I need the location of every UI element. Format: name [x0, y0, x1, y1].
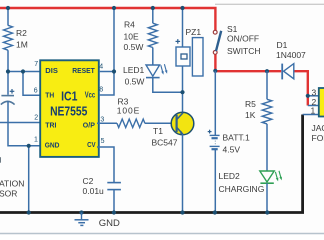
- diode D1: [282, 64, 294, 80]
- svg-text:0.5W: 0.5W: [125, 77, 145, 87]
- wire: R4 to LED1 anode: [152, 48, 154, 65]
- wire: IC pin 5 CV to C2: [97, 147, 114, 182]
- svg-text:GND: GND: [99, 218, 120, 229]
- svg-text:R5: R5: [245, 99, 256, 109]
- LED LED1: [146, 64, 167, 77]
- wire: IC pin 2 TRI line from left edge: [0, 122, 40, 124]
- svg-text:8: 8: [99, 87, 103, 94]
- resistor R3: [117, 119, 145, 127]
- wire: R2 to vibration sensor: [7, 50, 9, 95]
- svg-text:R2: R2: [16, 28, 27, 38]
- wire: PZ1 bottom to collector node: [182, 66, 184, 92]
- resistor R5: [262, 99, 272, 124]
- svg-text:GND: GND: [45, 141, 60, 150]
- svg-text:10E: 10E: [124, 31, 139, 41]
- svg-text:3: 3: [100, 116, 104, 123]
- junction: ground symbol on bus: [79, 210, 83, 214]
- junction: R4 top on rail: [151, 6, 155, 10]
- junction: IC pin 1 GND node: [27, 144, 31, 148]
- svg-text:TH: TH: [45, 90, 54, 99]
- svg-text:1K: 1K: [245, 110, 256, 120]
- wire: IC pin 3 O/P to R3: [97, 122, 117, 124]
- connector J1: charger jack (cut off at right edge): [319, 88, 324, 117]
- wire: jack pin 1 stub: [303, 114, 319, 116]
- capacitor C2: [107, 183, 121, 190]
- svg-text:D1: D1: [277, 40, 288, 50]
- junction: GND column on bus: [27, 210, 31, 214]
- junction: PZ1 column on rail: [180, 6, 184, 10]
- wire: C2 to ground bus: [113, 190, 115, 213]
- wire: GND node down to ground bus: [28, 146, 30, 213]
- wire: battery node down to BATT.1: [214, 71, 216, 135]
- junction: T1 emitter on bus: [180, 210, 184, 214]
- svg-text:PZ1: PZ1: [186, 27, 202, 37]
- junction: R5 top node on red wire: [265, 69, 269, 73]
- svg-text:NE7555: NE7555: [50, 104, 87, 119]
- junction: IC V+ column on rail: [112, 6, 116, 10]
- wire: node to R5: [266, 71, 268, 99]
- wire: LED1 cathode to collector node: [153, 78, 183, 93]
- svg-text:O/P: O/P: [83, 120, 95, 129]
- wire: battery negative to ground bus: [214, 149, 216, 212]
- svg-text:C2: C2: [83, 176, 94, 186]
- junction: R2 top on rail: [6, 6, 10, 10]
- wire: D1 cathode side to jack pins 3/2: [294, 71, 308, 105]
- svg-text:1N4007: 1N4007: [276, 50, 306, 60]
- svg-text:1: 1: [34, 136, 38, 143]
- op-amp/timer IC U1: IC1 NE7555 body: [40, 60, 99, 157]
- junction: node A TH branch: [21, 69, 25, 73]
- svg-text:R4: R4: [124, 20, 135, 30]
- ground symbol: [75, 213, 89, 226]
- svg-text:IC1: IC1: [61, 88, 77, 103]
- junction: jack pin 3 node on red wire: [306, 94, 310, 98]
- svg-text:6: 6: [34, 88, 38, 95]
- svg-text:ON/OFF: ON/OFF: [227, 34, 259, 44]
- junction: LED2 cathode on bus: [265, 210, 269, 214]
- svg-text:4: 4: [99, 64, 103, 71]
- junction: node A at R2 bottom: [6, 69, 10, 73]
- svg-text:Vcc: Vcc: [85, 91, 96, 100]
- junction: T1 collector node: [180, 90, 184, 94]
- svg-text:3: 3: [312, 88, 317, 98]
- wire: top V+ rail to S1: [0, 8, 215, 30]
- junction: battery positive node on red wire: [213, 69, 217, 73]
- svg-text:LED2: LED2: [219, 171, 241, 181]
- svg-text:SOR: SOR: [0, 189, 17, 199]
- svg-text:RESET: RESET: [72, 66, 95, 75]
- wire: jack pin 3 stub: [308, 95, 319, 97]
- wire: R5 to LED2 anode: [266, 124, 268, 171]
- piezo buzzer PZ1: [176, 38, 204, 76]
- svg-text:1: 1: [311, 106, 316, 116]
- wire: rail to R2: [7, 8, 9, 26]
- switch S1: [213, 30, 221, 54]
- svg-text:FOR: FOR: [312, 133, 324, 143]
- junction: battery negative on bus: [213, 210, 217, 214]
- resistor R2: [4, 25, 13, 50]
- wire: branch node A to IC pin 6 TH: [23, 72, 40, 96]
- svg-text:4.5V: 4.5V: [223, 144, 241, 154]
- svg-text:T1: T1: [153, 126, 163, 136]
- wire: rail down to PZ1 plus terminal: [182, 8, 184, 47]
- svg-text:BATT.1: BATT.1: [223, 132, 251, 142]
- junction: pin 4 RESET node: [112, 69, 116, 73]
- transistor Q1: T1 BC547: [171, 112, 194, 135]
- svg-text:CV: CV: [87, 140, 96, 149]
- svg-text:1M: 1M: [16, 40, 28, 50]
- svg-text:ATION: ATION: [0, 179, 24, 189]
- svg-text:LED1: LED1: [123, 65, 145, 75]
- wire: V+ rail down to IC pins 4 and 8: [99, 8, 114, 95]
- svg-text:2: 2: [34, 115, 38, 122]
- svg-text:JACK: JACK: [312, 123, 324, 133]
- wire: T1 emitter to ground bus: [182, 134, 184, 213]
- svg-text:0.01u: 0.01u: [83, 186, 105, 196]
- wire: collector node to T1 collector: [182, 92, 184, 113]
- svg-text:TRI: TRI: [45, 120, 56, 129]
- svg-text:S1: S1: [227, 24, 238, 34]
- svg-text:DIS: DIS: [45, 66, 58, 75]
- svg-text:100E: 100E: [117, 106, 140, 116]
- wire: S1 bottom to battery node to D1 anode run: [215, 54, 281, 71]
- cut-off mark at left edge: [0, 157, 1, 163]
- LED LED2 (green): [260, 171, 282, 183]
- wire: sensor bottom to IC pin 1 GND row: [8, 101, 40, 146]
- svg-text:7: 7: [34, 61, 38, 68]
- resistor R4: [148, 23, 157, 47]
- svg-text:BC547: BC547: [152, 138, 178, 148]
- svg-text:0.5W: 0.5W: [124, 42, 144, 52]
- battery BATT.1: [208, 130, 220, 150]
- svg-text:SWITCH: SWITCH: [227, 46, 261, 56]
- wire: LED2 cathode to ground bus: [266, 183, 268, 212]
- wire: rail to R4: [152, 8, 154, 23]
- wire: node A to IC pin 7 DIS: [8, 71, 40, 73]
- wire: jack pin 2 stub: [308, 105, 319, 107]
- wire: IC pin 4 RESET stub: [99, 71, 114, 73]
- wire: R3 to T1 base: [145, 122, 171, 124]
- junction: C2 on bus: [112, 210, 116, 214]
- vibration sensor (piezo element, cut off at left edge): [1, 89, 15, 105]
- svg-text:5: 5: [101, 138, 105, 145]
- svg-text:CHARGING: CHARGING: [219, 184, 265, 194]
- wire: ground bus and riser to jack pin 1: [0, 115, 303, 213]
